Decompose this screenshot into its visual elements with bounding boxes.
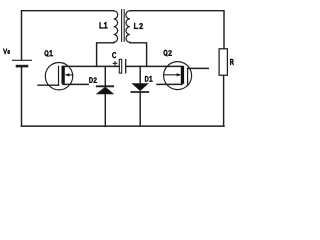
label C (113, 53, 116, 58)
inductor L2 (right winding) (126, 11, 130, 43)
source lead Q1 (63, 83, 88, 85)
label D2 (90, 78, 97, 83)
gate wire stub Q2 (188, 67, 209, 69)
gate bar Q1 (58, 66, 60, 85)
battery Vs (13, 60, 32, 66)
wire right rail lower (R bottom to bottom rail) (223, 75, 225, 126)
wire top rail left (Vs+ to L1 top) (22, 11, 114, 60)
channel bar Q2 (181, 66, 184, 84)
wire L1 bottom to main rail (97, 42, 114, 66)
transistor Q2 (157, 62, 208, 90)
transistor Q1 (38, 62, 88, 89)
resistor R (box) (219, 49, 227, 75)
label R (231, 59, 234, 64)
inductor L1 (left winding) (114, 11, 118, 43)
wire top rail right (L2 top to R) (130, 11, 224, 49)
label L1 (100, 23, 107, 28)
wire left rail lower (battery- to bottom rail) (21, 67, 23, 126)
wire bottom rail (22, 125, 225, 127)
label Q2 (164, 50, 171, 56)
label Vs (4, 49, 10, 54)
label L2 (134, 23, 142, 28)
bulk arrow Q2 (164, 74, 180, 76)
gate wire stub Q1 (38, 84, 59, 86)
diode D2 (cathode up) (97, 66, 113, 126)
channel bar Q1 (62, 66, 65, 84)
label D1 (145, 76, 152, 81)
wire L2 bottom to main rail (130, 42, 147, 66)
transformer core (122, 10, 125, 42)
wire main rail left (Q1 drain to C+) (63, 65, 119, 67)
capacitor C (119, 59, 125, 73)
label Q1 (45, 51, 52, 57)
wire main rail right (C- to Q2 drain) (126, 65, 182, 67)
bulk arrow Q1 (66, 74, 73, 76)
source lead Q2 (157, 83, 182, 85)
diode D1 (cathode down) (131, 66, 148, 126)
polarity + of C (113, 62, 117, 66)
gate bar Q2 (187, 68, 189, 85)
